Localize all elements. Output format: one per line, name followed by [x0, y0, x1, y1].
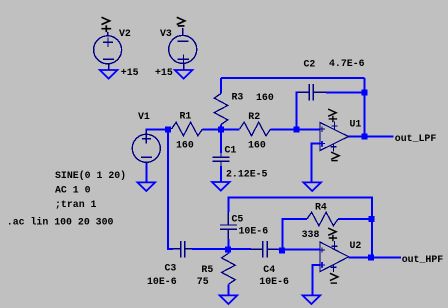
svg-text:C1: C1: [225, 145, 237, 156]
svg-text:U1: U1: [350, 119, 362, 130]
svg-text:10E-6: 10E-6: [147, 276, 177, 287]
svg-text:+15: +15: [121, 67, 139, 78]
svg-text:160: 160: [176, 140, 194, 151]
svg-text:10E-6: 10E-6: [239, 226, 269, 237]
svg-text:R4: R4: [315, 202, 327, 213]
svg-text:R5: R5: [201, 264, 213, 275]
svg-text:C5: C5: [232, 214, 244, 225]
svg-text:V1: V1: [138, 111, 150, 122]
svg-text:.ac lin 100 20 300: .ac lin 100 20 300: [7, 216, 114, 227]
svg-text:C2: C2: [304, 59, 316, 70]
svg-text:U2: U2: [350, 240, 362, 251]
svg-text:338: 338: [302, 229, 320, 240]
svg-text:R3: R3: [232, 92, 244, 103]
svg-text:C4: C4: [263, 264, 275, 275]
svg-text:V2: V2: [119, 28, 131, 39]
svg-text:2.12E-5: 2.12E-5: [226, 169, 268, 180]
svg-text:out_HPF: out_HPF: [402, 254, 444, 265]
svg-text:160: 160: [256, 92, 274, 103]
svg-text:V3: V3: [160, 28, 172, 39]
svg-text:AC 1 0: AC 1 0: [55, 185, 91, 196]
svg-text:;tran 1: ;tran 1: [55, 199, 97, 210]
svg-text:160: 160: [248, 140, 266, 151]
svg-text:C3: C3: [165, 263, 177, 274]
svg-text:out_LPF: out_LPF: [395, 133, 437, 144]
svg-text:SINE(0 1 20): SINE(0 1 20): [55, 170, 126, 181]
svg-text:+15: +15: [155, 67, 173, 78]
svg-text:4.7E-6: 4.7E-6: [329, 58, 365, 69]
svg-text:R2: R2: [248, 111, 260, 122]
svg-text:75: 75: [197, 276, 209, 287]
svg-text:10E-6: 10E-6: [259, 276, 289, 287]
svg-text:R1: R1: [180, 111, 192, 122]
